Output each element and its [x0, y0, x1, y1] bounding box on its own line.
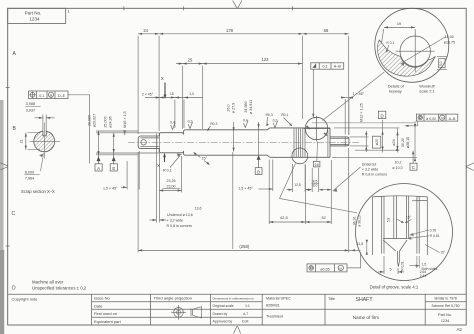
- svg-text:Undercut ø 13,6: Undercut ø 13,6: [167, 213, 193, 217]
- svg-text:56: 56: [324, 28, 329, 33]
- scrap section FCF position 0,1 M D-E: [29, 91, 90, 164]
- svg-text:Equivalent part: Equivalent part: [94, 319, 122, 324]
- groove detail caption: [370, 284, 419, 289]
- svg-text:Similar to 7978: Similar to 7978: [434, 297, 457, 301]
- svg-text:0,76: 0,76: [430, 229, 437, 233]
- part no box: [8, 8, 66, 23]
- svg-text:ø 10,0: ø 10,0: [392, 166, 402, 170]
- dim dia 24: [382, 129, 384, 153]
- svg-text:25: 25: [188, 57, 193, 62]
- chamfer 1 x 45: [353, 92, 365, 96]
- groove detail 36,16 dims: [353, 215, 364, 246]
- svg-text:ø 0,02: ø 0,02: [426, 117, 436, 121]
- svg-text:A,7: A,7: [243, 312, 248, 316]
- keyway circle on shaft: [304, 116, 330, 142]
- datum D: [378, 111, 385, 128]
- svg-text:5,0: 5,0: [439, 61, 443, 66]
- zone ticks top border: [124, 6, 293, 10]
- svg-text:0,2: 0,2: [188, 119, 193, 123]
- taper label 15 deg: [202, 157, 208, 161]
- svg-text:8,000: 8,000: [25, 170, 35, 174]
- shaft section dia 25: [159, 132, 183, 153]
- datum A: [95, 155, 102, 171]
- svg-text:ø 27,9: ø 27,9: [232, 103, 236, 113]
- shaft M12 threaded stub: [330, 137, 349, 146]
- svg-text:Copyright note: Copyright note: [12, 297, 39, 302]
- svg-text:15°: 15°: [441, 251, 447, 255]
- extension line x233 below shaft: [232, 152, 234, 249]
- svg-text:R 0,8 in corners: R 0,8 in corners: [167, 224, 193, 228]
- keyway length 16 box: [313, 142, 320, 167]
- svg-text:M12 × 1,25: M12 × 1,25: [360, 103, 364, 122]
- svg-text:Part No.: Part No.: [438, 313, 452, 317]
- svg-text:34,980: 34,980: [244, 101, 248, 112]
- label M12 x 1,25: [360, 103, 364, 122]
- surface finish marks group 2: [243, 113, 289, 123]
- svg-text:1:1: 1:1: [245, 304, 250, 308]
- keyway detail circle: [375, 8, 449, 82]
- svg-text:Original scale: Original scale: [213, 304, 234, 308]
- FCF concentricity 0,02: [405, 114, 458, 127]
- leader balloon to groove detail: [280, 164, 358, 213]
- dim 23,25 23,00: [163, 179, 180, 189]
- scrap section dim 21: [25, 133, 40, 150]
- svg-text:15°: 15°: [406, 216, 412, 220]
- svg-text:8,0: 8,0: [313, 184, 318, 188]
- general notes: [32, 280, 87, 291]
- svg-text:0,4: 0,4: [243, 119, 248, 123]
- scrap section caption: [21, 189, 55, 194]
- svg-text:5,8: 5,8: [387, 218, 391, 223]
- title block text middle: [213, 296, 292, 323]
- svg-text:Unspecified tolerances ± 0,2: Unspecified tolerances ± 0,2: [32, 286, 87, 291]
- svg-text:R0,3: R0,3: [210, 122, 217, 126]
- svg-text:23,00: 23,00: [167, 184, 176, 188]
- centering mark left: [1, 163, 8, 170]
- svg-text:1: 1: [68, 9, 71, 14]
- svg-text:D: D: [12, 286, 16, 292]
- svg-text:A: A: [13, 51, 17, 57]
- svg-text:1234: 1234: [29, 17, 40, 22]
- svg-text:3,988: 3,988: [26, 102, 36, 106]
- woodruff pocket hatched: [377, 40, 435, 76]
- zone letters: [12, 51, 17, 292]
- dim 12,5 grooves: [287, 164, 312, 192]
- svg-text:3,937: 3,937: [26, 108, 36, 112]
- undercut note right: [362, 163, 388, 177]
- scrap section labels 8,000 7,964: [25, 170, 40, 180]
- svg-text:D–E: D–E: [58, 94, 66, 98]
- centering mark top: [233, 1, 242, 9]
- svg-text:A–B: A–B: [334, 65, 342, 69]
- svg-text:26,0: 26,0: [227, 104, 231, 111]
- title block text left: [12, 296, 192, 324]
- dim 30,20: [396, 129, 398, 153]
- svg-text:Woodruff: Woodruff: [419, 85, 435, 89]
- scrap section slot width dim: [35, 115, 55, 133]
- groove detail small arrows 15 deg: [397, 219, 412, 223]
- groove detail 1,5 both sides: [410, 256, 420, 268]
- svg-text:16: 16: [315, 163, 319, 167]
- groove balloon circle: [292, 148, 308, 164]
- thread dims 2x45 15 1,0: [145, 96, 203, 128]
- label M16 x 1,5: [123, 111, 127, 128]
- undercut dim 3,2 left: [150, 134, 167, 223]
- svg-text:21: 21: [19, 139, 23, 143]
- svg-text:10,2: 10,2: [395, 161, 402, 165]
- left diameter dims 29,980 and 25,000 with datums A E: [96, 131, 159, 155]
- svg-text:(258): (258): [239, 244, 249, 249]
- svg-text:Part No.: Part No.: [25, 11, 42, 16]
- shaft centerline: [128, 141, 360, 143]
- svg-text:1,0: 1,0: [189, 92, 194, 96]
- svg-text:ø0,05: ø0,05: [320, 267, 329, 271]
- dimension 25 and 123: [176, 57, 302, 129]
- svg-text:ø20: ø20: [375, 139, 379, 145]
- svg-text:2 × 45°: 2 × 45°: [142, 92, 154, 96]
- svg-text:Undercut: Undercut: [362, 163, 377, 167]
- svg-text:A: A: [97, 166, 100, 171]
- centering mark bottom: [234, 326, 241, 333]
- groove detail surface lines: [372, 196, 427, 255]
- overall dim (258): [138, 148, 349, 252]
- groove detail 15 deg right: [441, 251, 447, 255]
- keyway detail 5,0 dim: [437, 57, 447, 70]
- svg-text:X: X: [161, 76, 164, 81]
- svg-text:13,6: 13,6: [195, 207, 202, 211]
- svg-text:1234: 1234: [441, 319, 449, 323]
- svg-text:42,5: 42,5: [280, 215, 289, 220]
- groove detail labels right: [430, 229, 440, 239]
- svg-text:ø18,75: ø18,75: [444, 40, 455, 44]
- dim M12 dia: [365, 131, 367, 152]
- svg-text:Material SPEC: Material SPEC: [266, 297, 291, 301]
- section X upper mark: [161, 76, 167, 99]
- centering mark right: [466, 163, 474, 171]
- svg-text:R0,3: R0,3: [266, 113, 273, 117]
- svg-text:R 0,1: R 0,1: [163, 169, 172, 173]
- boxed dim dia 20: [372, 136, 380, 148]
- svg-text:Third angle projection: Third angle projection: [154, 296, 192, 301]
- scrap section circle: [30, 123, 61, 159]
- svg-text:D: D: [381, 113, 384, 118]
- svg-text:Details of: Details of: [388, 85, 405, 89]
- woodruff key circle: [396, 33, 435, 73]
- dim 42,5 and 32: [269, 160, 331, 225]
- svg-text:15: 15: [170, 92, 174, 96]
- svg-text:A–B: A–B: [449, 117, 456, 121]
- svg-text:Issue No: Issue No: [94, 296, 111, 301]
- svg-text:Treatment: Treatment: [266, 315, 284, 319]
- FCF circular runout 0,05: [307, 249, 361, 272]
- right end extension lines: [312, 123, 417, 157]
- svg-text:Machine all over: Machine all over: [32, 280, 64, 285]
- svg-text:R 0,1: R 0,1: [387, 41, 395, 45]
- svg-text:D,M: D,M: [242, 320, 249, 324]
- title block frame: [8, 294, 467, 325]
- shaft section dia 35: [270, 128, 330, 157]
- svg-text:826M31: 826M31: [266, 304, 280, 308]
- svg-text:A2: A2: [457, 327, 463, 332]
- svg-text:178: 178: [226, 28, 234, 33]
- fillet label R 0,1 lower: [163, 169, 172, 173]
- svg-text:25,000: 25,000: [104, 116, 108, 127]
- leader keyway to detail: [323, 72, 385, 121]
- datum B: [255, 155, 262, 174]
- groove detail dim 5: [378, 256, 404, 274]
- FCF runout 0,1 A-B: [311, 63, 344, 118]
- top dimension 24 178 56: [138, 28, 349, 135]
- shaft section dia 30: [184, 128, 270, 157]
- keyway detail dia label: [444, 35, 455, 44]
- svg-text:7,964: 7,964: [25, 176, 35, 180]
- svg-text:0,1: 0,1: [322, 65, 327, 69]
- keyway detail dim 19: [382, 26, 416, 43]
- svg-text:8,5: 8,5: [313, 179, 318, 183]
- svg-text:32: 32: [321, 215, 326, 220]
- third angle projection symbol: [171, 305, 201, 320]
- datum C: [410, 150, 417, 170]
- svg-text:Scrap section X–X: Scrap section X–X: [21, 189, 55, 194]
- page left edge shadow: [0, 100, 4, 334]
- surface finish marks group 1: [170, 119, 217, 126]
- svg-text:0,1: 0,1: [39, 94, 44, 98]
- keyway detail captions: [388, 85, 436, 94]
- svg-text:Date: Date: [94, 303, 103, 308]
- svg-text:ø24: ø24: [392, 139, 396, 145]
- svg-text:123: 123: [262, 57, 270, 62]
- label 10,2 dia 10,0: [392, 161, 402, 170]
- svg-text:C: C: [412, 165, 415, 170]
- svg-text:19,00: 19,00: [445, 35, 454, 39]
- svg-text:Detail of groove. scale 4:1: Detail of groove. scale 4:1: [370, 284, 419, 289]
- svg-text:ø 36,10: ø 36,10: [358, 215, 362, 227]
- shaft M16 threaded stub: [138, 136, 159, 149]
- dim 8,5 8,0: [308, 168, 323, 192]
- M12 undercut pair: [327, 130, 329, 157]
- svg-text:Approved by: Approved by: [213, 320, 233, 324]
- svg-text:E: E: [112, 166, 115, 171]
- dim dia 36 tall: [414, 121, 416, 161]
- dim 34,980 with datum B: [244, 100, 253, 114]
- svg-text:15°: 15°: [202, 157, 208, 161]
- groove detail circle: [356, 184, 453, 281]
- svg-text:Name of firm: Name of firm: [353, 315, 379, 320]
- svg-text:2,44: 2,44: [420, 274, 427, 278]
- svg-text:Title: Title: [328, 297, 335, 301]
- undercut grooves on dia 35: [294, 128, 305, 157]
- svg-text:36,16: 36,16: [353, 217, 357, 226]
- svg-text:23,25: 23,25: [167, 179, 176, 183]
- svg-text:5: 5: [389, 268, 391, 272]
- chamfer 1,5 x 45 left: [103, 187, 118, 191]
- groove V profile: [383, 239, 407, 267]
- svg-text:M16 × 1,5: M16 × 1,5: [123, 111, 127, 128]
- datum E: [110, 153, 117, 171]
- undercut note left: [167, 207, 202, 229]
- svg-text:Scheme Ref 5,750: Scheme Ref 5,750: [431, 304, 459, 308]
- groove detail R 0,51 vertical: [400, 261, 404, 271]
- svg-text:ø29,927: ø29,927: [93, 114, 97, 128]
- svg-text:scale 2:1: scale 2:1: [419, 89, 434, 93]
- svg-text:keyway: keyway: [389, 89, 402, 93]
- svg-text:× 3,2 wide: × 3,2 wide: [167, 219, 183, 223]
- dim tick 331: [322, 160, 331, 224]
- svg-text:B: B: [13, 126, 17, 132]
- svg-text:2,64: 2,64: [420, 270, 427, 274]
- svg-text:Drawn by: Drawn by: [213, 312, 228, 316]
- svg-text:First used on: First used on: [94, 311, 117, 316]
- title block text right: [328, 297, 462, 333]
- scrap section labels 3,988 3,937: [25, 102, 40, 112]
- svg-text:31,8: 31,8: [357, 242, 364, 246]
- svg-text:SHAFT: SHAFT: [355, 297, 373, 303]
- svg-text:0,2: 0,2: [273, 119, 278, 123]
- svg-text:30,20: 30,20: [401, 138, 405, 147]
- svg-text:1,5 × 45°: 1,5 × 45°: [103, 187, 118, 191]
- keyway detail R 0,1: [387, 41, 395, 45]
- svg-text:R 0,51: R 0,51: [400, 261, 404, 271]
- svg-text:19: 19: [397, 22, 401, 26]
- svg-text:1,5 × 45°: 1,5 × 45°: [238, 187, 253, 191]
- svg-text:B: B: [257, 169, 260, 174]
- svg-text:C: C: [12, 211, 16, 217]
- chamfer 1,5 x 45 mid: [238, 187, 253, 191]
- svg-text:R 0,51: R 0,51: [430, 234, 440, 238]
- dim 26,0 dia 27,9 groove: [227, 103, 236, 113]
- svg-text:ø38,15: ø38,15: [406, 137, 410, 148]
- svg-text:1 × 45°: 1 × 45°: [353, 92, 365, 96]
- zone ticks left border: [6, 88, 10, 247]
- svg-text:R 0,8 in corners: R 0,8 in corners: [362, 173, 388, 177]
- svg-text:0,4: 0,4: [170, 121, 175, 125]
- svg-text:Dimensions in millimetres(mm): Dimensions in millimetres(mm): [213, 296, 254, 300]
- section X lower mark: [157, 153, 166, 168]
- svg-text:R0,1: R0,1: [281, 113, 288, 117]
- svg-text:ø24,95: ø24,95: [109, 116, 113, 127]
- svg-text:12,5: 12,5: [294, 183, 301, 187]
- svg-text:24: 24: [143, 28, 148, 33]
- svg-text:× 3,2 wide: × 3,2 wide: [362, 168, 378, 172]
- svg-text:ø 34,911: ø 34,911: [249, 100, 253, 114]
